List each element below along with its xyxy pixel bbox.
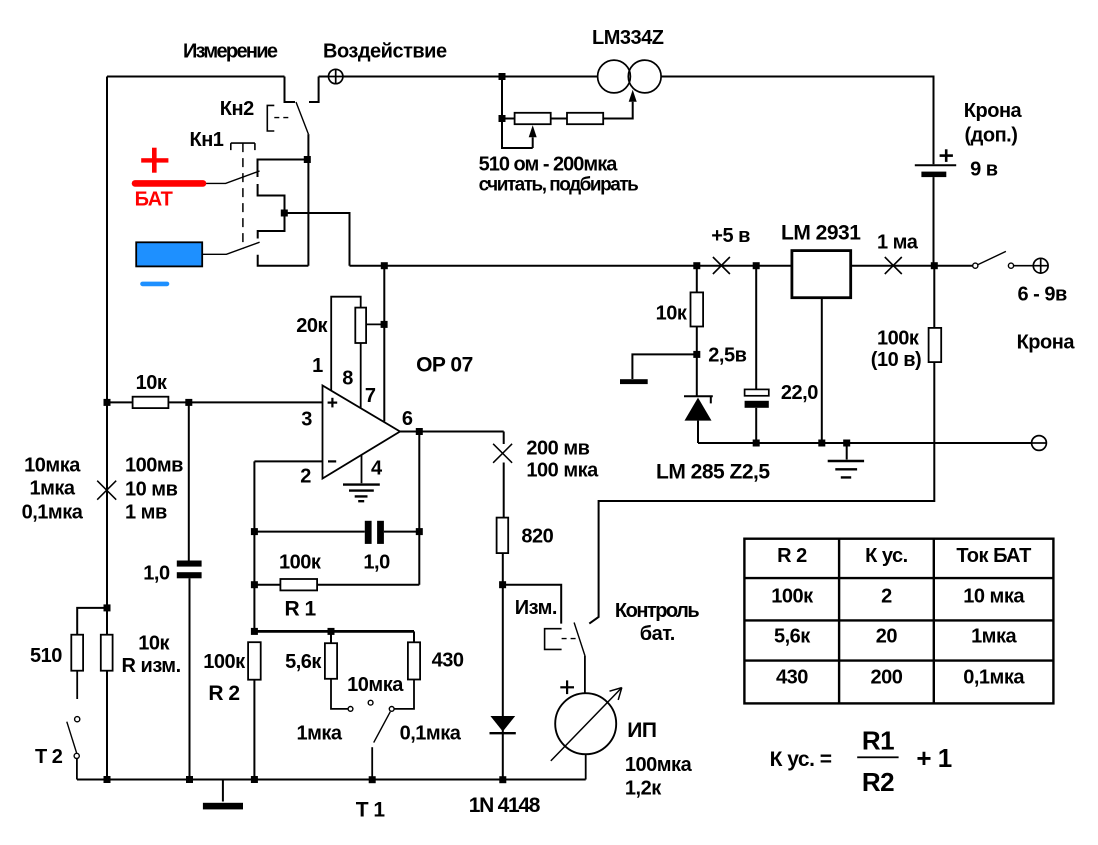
svg-text:100мв: 100мв	[125, 455, 183, 477]
svg-text:4: 4	[371, 458, 383, 480]
svg-text:1: 1	[312, 355, 323, 377]
svg-text:считать, подбирать: считать, подбирать	[479, 175, 638, 196]
svg-text:2: 2	[300, 466, 311, 488]
svg-text:(доп.): (доп.)	[965, 125, 1018, 147]
svg-text:6: 6	[402, 408, 413, 430]
svg-text:0,1мка: 0,1мка	[400, 723, 462, 745]
svg-text:22,0: 22,0	[781, 382, 818, 404]
svg-text:10мка: 10мка	[347, 674, 404, 696]
svg-text:1 мв: 1 мв	[125, 502, 167, 524]
svg-text:100мка: 100мка	[625, 754, 693, 776]
svg-text:БАТ: БАТ	[135, 189, 173, 211]
svg-text:10 мка: 10 мка	[963, 586, 1025, 608]
svg-text:0,1мка: 0,1мка	[963, 667, 1025, 689]
svg-text:1N 4148: 1N 4148	[469, 794, 541, 817]
svg-text:100к: 100к	[877, 328, 920, 350]
svg-text:3: 3	[301, 409, 312, 431]
svg-text:510 ом - 200мка: 510 ом - 200мка	[479, 154, 619, 176]
svg-text:510: 510	[30, 645, 62, 667]
svg-text:100к: 100к	[771, 586, 814, 608]
svg-text:Измерение: Измерение	[183, 41, 278, 63]
svg-text:К ус. =: К ус. =	[770, 748, 832, 771]
svg-text:LM334Z: LM334Z	[592, 27, 664, 49]
svg-text:Т 2: Т 2	[35, 746, 63, 768]
svg-text:OP 07: OP 07	[416, 354, 473, 377]
svg-text:820: 820	[521, 526, 553, 548]
svg-text:1,2к: 1,2к	[625, 778, 662, 800]
svg-text:1,0: 1,0	[143, 563, 170, 585]
svg-text:Воздействие: Воздействие	[323, 41, 447, 63]
svg-text:Контроль: Контроль	[615, 600, 699, 622]
svg-text:R1: R1	[862, 726, 894, 756]
svg-text:8: 8	[342, 368, 353, 390]
svg-text:+5 в: +5 в	[711, 225, 750, 247]
svg-text:7: 7	[365, 385, 376, 407]
svg-text:6 - 9в: 6 - 9в	[1018, 284, 1068, 306]
svg-text:R изм.: R изм.	[122, 655, 181, 677]
svg-text:LM 285 Z2,5: LM 285 Z2,5	[656, 461, 770, 484]
svg-text:Крона: Крона	[1017, 332, 1076, 354]
svg-text:0,1мка: 0,1мка	[22, 502, 84, 524]
svg-text:1мка: 1мка	[29, 478, 75, 500]
svg-text:10к: 10к	[138, 633, 170, 655]
svg-text:10к: 10к	[656, 303, 688, 325]
svg-text:Кн2: Кн2	[220, 98, 254, 120]
svg-text:К ус.: К ус.	[865, 545, 908, 567]
svg-text:1,0: 1,0	[363, 552, 390, 574]
svg-text:5,6к: 5,6к	[285, 651, 322, 673]
svg-text:200: 200	[870, 667, 902, 689]
svg-text:Кн1: Кн1	[190, 129, 224, 151]
svg-text:100к: 100к	[203, 651, 246, 673]
svg-text:R 2: R 2	[208, 682, 239, 705]
svg-text:20: 20	[876, 626, 898, 648]
svg-text:2: 2	[881, 586, 892, 608]
svg-text:200 мв: 200 мв	[526, 438, 589, 460]
svg-text:1мка: 1мка	[296, 723, 342, 745]
svg-text:LM 2931: LM 2931	[781, 222, 861, 245]
svg-text:430: 430	[776, 667, 808, 689]
svg-text:Ток БАТ: Ток БАТ	[956, 545, 1031, 567]
svg-text:100к: 100к	[279, 552, 322, 574]
svg-text:100 мка: 100 мка	[526, 460, 599, 482]
svg-text:1мка: 1мка	[971, 626, 1017, 648]
svg-text:бат.: бат.	[640, 623, 675, 645]
svg-text:20к: 20к	[296, 315, 328, 337]
svg-text:Изм.: Изм.	[515, 597, 557, 619]
svg-text:10 мв: 10 мв	[125, 479, 178, 501]
svg-text:1 ма: 1 ма	[877, 232, 919, 254]
svg-text:10мка: 10мка	[24, 455, 81, 477]
svg-text:Крона: Крона	[964, 100, 1023, 122]
svg-text:9 в: 9 в	[970, 159, 998, 181]
svg-text:2,5в: 2,5в	[708, 345, 746, 367]
svg-text:R2: R2	[862, 767, 894, 797]
svg-text:+ 1: + 1	[916, 743, 951, 773]
svg-text:(10 в): (10 в)	[871, 349, 921, 371]
svg-text:R 1: R 1	[285, 598, 317, 621]
svg-text:ИП: ИП	[627, 719, 656, 742]
svg-text:430: 430	[432, 650, 464, 672]
svg-text:Т 1: Т 1	[356, 799, 386, 822]
svg-text:R 2: R 2	[777, 545, 807, 567]
svg-text:5,6к: 5,6к	[774, 626, 811, 648]
svg-text:10к: 10к	[136, 372, 168, 394]
